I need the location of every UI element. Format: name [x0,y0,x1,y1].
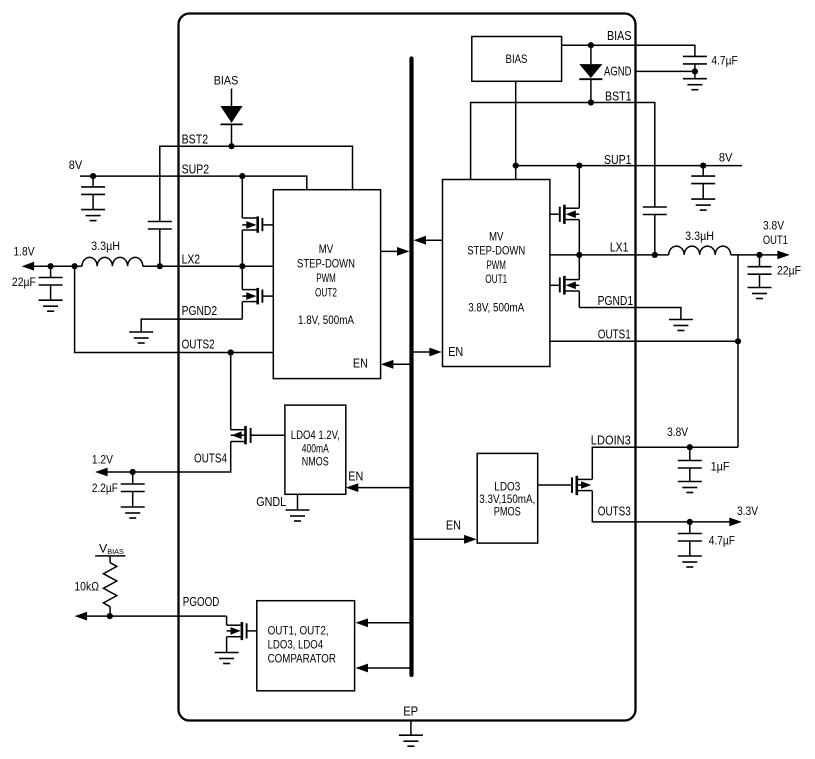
inductor L2 3.3uH [82,257,143,266]
wire comparator input 2 from bus [367,667,412,669]
ground at GNDL [286,510,310,521]
capacitor C_LDOIN3 1uF [689,447,691,460]
svg-text:STEP-DOWN: STEP-DOWN [297,257,355,270]
ground at M7 source [215,653,239,664]
svg-text:PMOS: PMOS [494,506,521,519]
wire LX1 net [550,254,669,256]
svg-text:3.3µH: 3.3µH [91,239,120,253]
svg-text:LDO4 1.2V,: LDO4 1.2V, [291,429,340,442]
wire U_OUT2 output to bus [381,250,397,252]
node SUP1-BIAS junction [513,163,519,169]
svg-text:OUTS3: OUTS3 [598,504,631,518]
capacitor C_OUT1 22uF [759,255,761,267]
ground at C_LDO4 [121,507,145,518]
node D2-BST2 junction [228,143,234,149]
svg-text:PGOOD: PGOOD [183,595,220,609]
node LX1-FET junction [576,252,582,258]
wire PGND2 net [141,319,242,332]
svg-text:3.8V: 3.8V [763,219,785,233]
node D1-BST1 junction [588,99,594,105]
svg-text:1µF: 1µF [711,459,730,473]
wire AGND pin to cap [636,70,695,72]
svg-text:BIAS: BIAS [607,29,632,43]
svg-text:SUP2: SUP2 [182,162,210,176]
capacitor C_SUP2 8V bypass [92,176,94,187]
svg-text:EN: EN [353,357,368,371]
node OUTS2-LDO4 junction [228,349,234,355]
ground at C_BIAS [683,79,707,90]
transistor M7 PGOOD open-drain [227,616,257,652]
svg-text:22µF: 22µF [777,264,801,278]
svg-text:3.8V, 500mA: 3.8V, 500mA [468,302,524,315]
wire OUTS3 net [592,491,732,522]
wire EN OUT2 from bus [393,363,412,365]
svg-text:OUTS1: OUTS1 [598,328,631,342]
wire PGOOD net [85,615,227,617]
U_OUT1 text [467,231,525,315]
svg-text:MV: MV [489,231,504,244]
op block U_LDO4 [285,405,346,494]
ground at EP [399,735,423,746]
svg-text:LDOIN3: LDOIN3 [591,434,631,448]
U_LDO3 text [479,481,535,519]
svg-text:OUTS2: OUTS2 [182,338,215,352]
svg-text:OUT1: OUT1 [485,273,507,286]
svg-text:OUT1, OUT2,: OUT1, OUT2, [268,624,329,637]
wire OUT1 sense vertical [737,255,739,447]
node OUTS4-C junction [130,469,136,475]
wire comparator input 1 from bus [367,622,412,624]
node LX2-FET junction [239,263,245,269]
wire C_BIAS bottom to AGND [694,64,696,79]
wire LX2 net [32,265,83,267]
node BIAS-diode junction [588,42,594,48]
wire BIAS block to SUP1/block [515,81,517,179]
svg-text:3.3V,150mA,: 3.3V,150mA, [479,493,535,506]
wire EN OUT1 from bus [412,351,431,353]
supply rail VBIAS [95,542,125,563]
ground at C_LDOIN3 [678,482,702,493]
wire LDOIN3 net [592,447,738,479]
svg-text:GNDL: GNDL [256,495,286,509]
svg-text:OUT1: OUT1 [763,233,788,247]
ground at C_OUT2 [39,300,63,311]
ground at C_SUP2 [81,210,105,221]
wire EN LDO3 from bus [412,538,466,540]
wire U_OUT1 output to bus [416,239,443,241]
svg-text:LX2: LX2 [182,253,201,267]
svg-text:4.7µF: 4.7µF [711,54,738,68]
ground at PGND2 [129,332,153,343]
svg-text:SUP1: SUP1 [604,153,632,167]
capacitor C_BIAS 4.7uF [683,56,707,64]
diode D1 BIAS to BST1 [579,45,602,102]
wire EP to ground [410,721,412,736]
svg-text:BST1: BST1 [605,90,632,104]
arrow EN into U_LDO4 [346,483,359,492]
svg-text:COMPARATOR: COMPARATOR [268,653,336,666]
internal signal bus [409,59,413,676]
arrow EN into U_OUT1 [429,348,442,357]
svg-text:MV: MV [319,243,334,256]
arrow into comparator 2 [356,664,369,673]
svg-text:8V: 8V [69,158,83,172]
wire PGND1 net [579,308,681,320]
svg-text:AGND: AGND [604,65,632,79]
svg-text:OUTS4: OUTS4 [194,451,227,465]
transistor M6 LDO3 pass PMOS [538,476,593,495]
node LX2-OUTS2 junction [72,263,78,269]
wire SUP2 net [80,176,307,190]
svg-text:1.2V: 1.2V [92,452,114,466]
transistor M1 high-side OUT1 [550,166,579,255]
resistor R1 10k [103,563,116,607]
ground at C_SUP1 [691,199,715,210]
wire R1 to PGOOD [109,607,111,616]
wire C_BST2 to LX2 [159,229,161,266]
capacitor C_BST1 bootstrap [643,207,667,215]
svg-text:LDO3: LDO3 [494,481,520,494]
node LX2-C22 junction [48,263,54,269]
wire SUP1 net to 8V [516,165,742,167]
svg-text:10kΩ: 10kΩ [74,579,99,593]
wire OUTS4 net [105,442,231,473]
node OUTS3-C junction [687,519,693,525]
wire OUTS2 to LDO4 FET [230,353,232,430]
capacitor C_LDO3 4.7uF [689,522,691,534]
wire BIAS output net [562,45,695,56]
arrow EN into U_OUT2 [381,360,394,369]
capacitor C_BST2 bootstrap [148,222,172,230]
node LX2-CBST junction [157,263,163,269]
op block U_OUT2 MV STEP-DOWN PWM [273,190,380,379]
svg-text:STEP-DOWN: STEP-DOWN [467,245,525,258]
arrow into bus from OUT1 [414,236,427,245]
svg-text:EN: EN [348,470,363,484]
transistor M5 LDO4 pass NMOS [231,426,285,444]
wire LX2 to block [143,265,273,267]
svg-text:PWM: PWM [316,272,336,285]
node OUT1-C22 junction [756,252,762,258]
ground at C_OUT1 [748,288,772,299]
node SUP2-FET junction [239,173,245,179]
svg-text:3.8V: 3.8V [667,425,689,439]
svg-text:LX1: LX1 [610,240,629,254]
U_LDO4 text [291,429,340,468]
op block U_OUT1 MV STEP-DOWN PWM [443,180,550,367]
inductor L1 3.3uH [669,246,731,255]
svg-text:EN: EN [446,519,461,533]
svg-text:22µF: 22µF [12,275,36,289]
wire EN LDO4 from bus [357,487,412,489]
capacitor C_OUT2 22uF [50,266,52,277]
svg-text:2.2µF: 2.2µF [92,481,118,495]
ground at C_LDO3 [678,556,702,567]
svg-text:NMOS: NMOS [302,456,329,469]
arrow 1.8V output [22,262,34,271]
svg-text:BIAS: BIAS [214,73,239,87]
capacitor C_SUP1 8V bypass [702,166,704,177]
op block U_COMP comparator [257,601,355,691]
transistor M3 high-side OUT2 [242,176,273,266]
node PGOOD-R1 junction [107,613,113,619]
svg-text:1.8V: 1.8V [14,244,36,258]
U_COMP text [268,624,336,665]
svg-text:3.3V: 3.3V [737,504,759,518]
transistor M4 low-side OUT2 [242,266,273,319]
arrow 3.3V output [729,518,742,527]
wire BST1 net [471,103,655,208]
svg-text:PWM: PWM [486,259,506,272]
svg-text:4.7µF: 4.7µF [709,533,736,547]
ground at PGND1 [669,320,693,331]
node SUP2-C8V junction [90,173,96,179]
op block U_LDO3 [477,453,538,543]
svg-text:BIAS: BIAS [506,53,528,66]
arrow OUT1 output [777,251,790,260]
wire OUT1 output [731,254,780,256]
node LDOIN3-C junction [687,444,693,450]
arrow EN into U_LDO3 [464,535,477,544]
svg-text:EP: EP [403,704,418,718]
wire C_BST1 to LX1 [654,215,656,255]
arrow PGOOD output [75,612,88,621]
svg-text:BST2: BST2 [182,133,209,147]
arrow into comparator 1 [356,618,369,627]
capacitor C_LDO4 2.2uF [132,472,134,484]
svg-text:1.8V, 500mA: 1.8V, 500mA [298,314,354,327]
node OUTS1 sense junction [735,338,741,344]
svg-text:EN: EN [448,345,463,359]
U_OUT2 text [297,243,355,327]
node SUP1-FET junction [576,163,582,169]
svg-text:PGND2: PGND2 [182,304,218,318]
IC boundary MAX17270 outline [179,14,636,721]
transistor M2 low-side OUT1 [550,255,579,308]
node AGND junction [692,68,698,74]
svg-text:LDO3, LDO4: LDO3, LDO4 [268,638,324,651]
arrow into bus from OUT2 [397,247,410,256]
node SUP1-C8V junction [700,163,706,169]
svg-text:400mA: 400mA [302,443,329,456]
BIAS block U_BIAS [472,37,562,82]
svg-text:8V: 8V [719,150,733,164]
node LX1-CBST junction [652,252,658,258]
wire OUTS1 net [550,340,738,342]
svg-text:OUT2: OUT2 [315,286,337,299]
svg-text:3.3µH: 3.3µH [685,229,714,243]
arrow 1.2V output [95,468,108,477]
wire GNDL stub [297,494,299,510]
svg-text:PGND1: PGND1 [598,294,634,308]
wire OUTS2 net [75,266,274,352]
diode D2 BIAS to BST2 [214,73,243,146]
wire BST2 net [160,146,353,221]
